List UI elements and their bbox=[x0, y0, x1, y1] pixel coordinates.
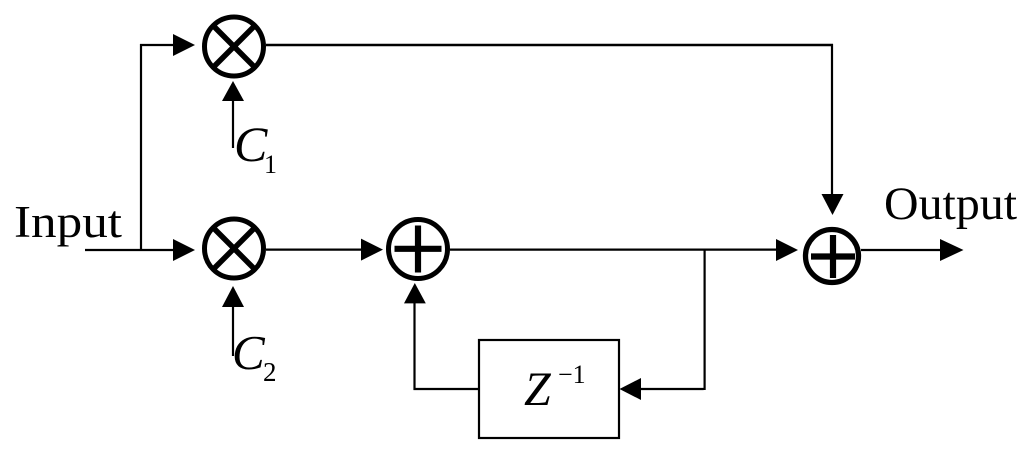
svg-text:2: 2 bbox=[263, 357, 277, 387]
arrowhead into multiplier M2 bbox=[173, 239, 195, 261]
arrowhead into Z box bbox=[620, 378, 642, 400]
adder A1 (middle circle with plus) bbox=[389, 220, 448, 279]
wire A1 to adder A2 bbox=[450, 249, 778, 251]
wire feedback branch down at node bbox=[703, 250, 705, 390]
arrowhead into multiplier M1 bbox=[173, 34, 195, 56]
wire feedback up into adder A1 bbox=[413, 302, 415, 390]
wire input horizontal bbox=[85, 249, 175, 251]
wire feedback to Z box bbox=[640, 388, 704, 390]
svg-text:C: C bbox=[234, 116, 268, 172]
arrow C1 into M1 bbox=[222, 81, 244, 148]
label C1 bbox=[234, 116, 277, 179]
svg-text:Output: Output bbox=[884, 178, 1017, 230]
arrowhead down into adder A2 bbox=[822, 194, 844, 215]
svg-text:−1: −1 bbox=[558, 360, 586, 389]
label C2 bbox=[232, 325, 277, 387]
wire Z box output to left bbox=[414, 388, 480, 390]
wire M2 to adder A1 bbox=[266, 249, 363, 251]
wire output bbox=[861, 249, 942, 251]
arrowhead into adder A1 bbox=[361, 239, 383, 261]
multiplier M1 (top circle with X) bbox=[205, 17, 264, 76]
svg-text:1: 1 bbox=[264, 150, 277, 179]
adder A2 (right circle with plus) bbox=[806, 230, 859, 283]
arrowhead up into adder A1 bbox=[404, 283, 426, 303]
arrowhead output bbox=[940, 239, 964, 261]
wire corner to top multiplier bbox=[140, 44, 175, 46]
arrow C2 into M2 bbox=[222, 286, 244, 356]
delay block Z^-1 bbox=[479, 340, 619, 438]
wire down from corner to adder A2 bbox=[831, 44, 833, 195]
arrowhead into adder A2 from left bbox=[776, 239, 798, 261]
svg-text:Z: Z bbox=[524, 363, 552, 416]
wire M1 to right corner bbox=[266, 44, 833, 46]
wire input branch vertical bbox=[140, 44, 142, 250]
svg-text:Input: Input bbox=[14, 197, 123, 247]
multiplier M2 (middle circle with X) bbox=[205, 219, 264, 278]
svg-text:C: C bbox=[232, 325, 266, 380]
